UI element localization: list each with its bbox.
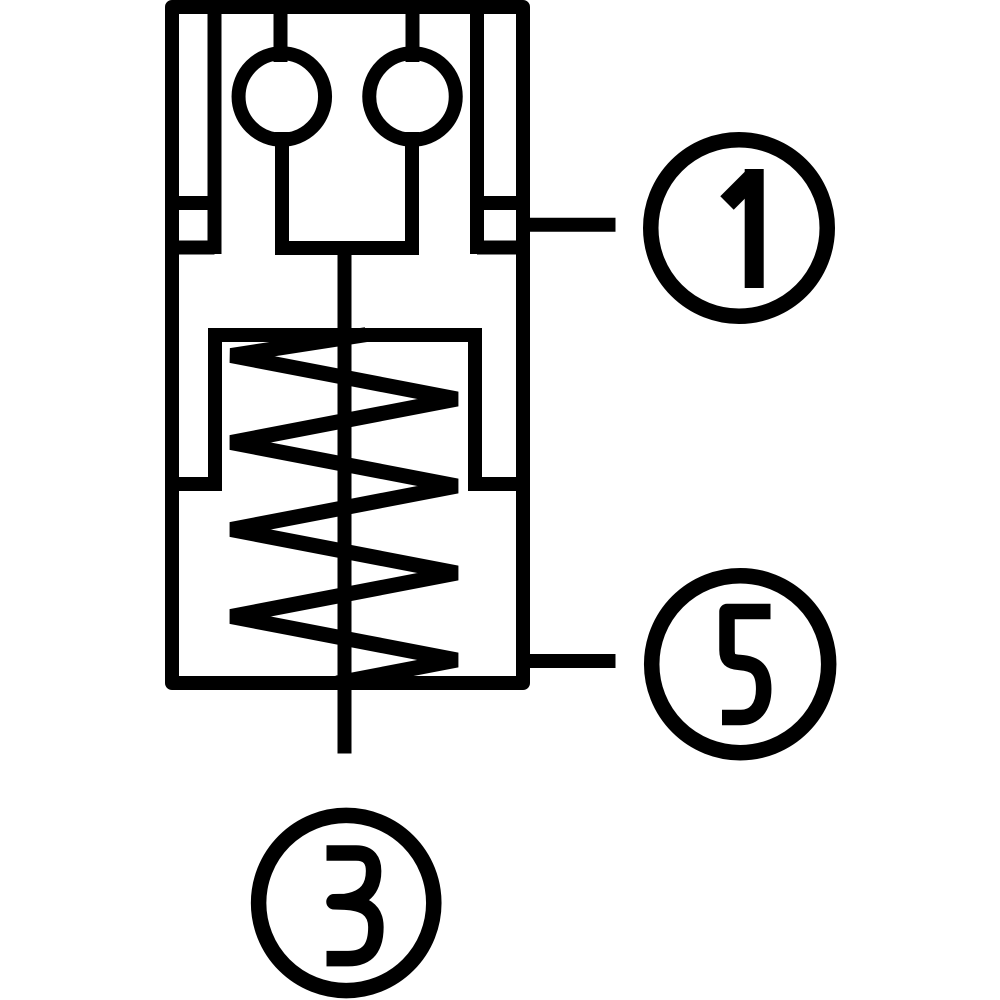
wire below left pilot circle	[275, 132, 289, 248]
left notch upper bar	[172, 196, 215, 210]
port circle 3	[259, 815, 434, 990]
port 1 wire	[523, 218, 616, 232]
spring	[231, 335, 457, 683]
numeral 1 flag	[727, 179, 752, 204]
wire below right pilot circle	[405, 132, 419, 248]
valve body outer rectangle	[172, 7, 523, 683]
inner right vertical wall	[470, 7, 484, 254]
left notch lower bar	[172, 241, 215, 255]
right pilot circle	[369, 53, 456, 140]
numeral 1 stem	[745, 169, 764, 288]
center stem wire	[338, 248, 352, 754]
right notch upper bar	[477, 196, 523, 210]
port 5 wire	[523, 654, 616, 668]
left pilot circle	[239, 53, 326, 140]
port circle 5	[652, 576, 829, 753]
numeral 3	[327, 853, 376, 959]
right notch lower bar	[477, 241, 523, 255]
inner left vertical wall	[208, 7, 222, 254]
numeral 5	[722, 612, 771, 718]
stub above left pilot circle	[274, 7, 288, 62]
port circle 1	[651, 140, 828, 317]
U bottom bar joining pilot wires	[275, 241, 419, 255]
spring housing bracket	[172, 335, 523, 484]
stub above right pilot circle	[406, 7, 420, 62]
